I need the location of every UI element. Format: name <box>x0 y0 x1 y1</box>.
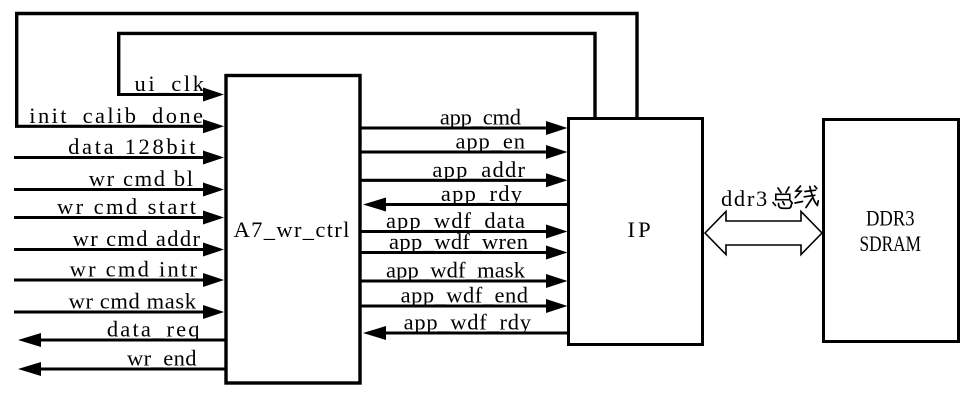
wire data_req (output, leftward) <box>39 338 226 341</box>
arrowhead wr cmd addr into A7 <box>203 243 224 257</box>
arrowhead wr cmd mask into A7 <box>203 305 224 319</box>
svg-text:app_wdf_wren: app_wdf_wren <box>389 229 528 254</box>
svg-text:app_addr: app_addr <box>432 157 525 182</box>
wire wr_end (output, leftward) <box>39 367 226 370</box>
wire wr cmd addr <box>14 248 207 251</box>
wire wr cmd start <box>14 216 207 219</box>
svg-text:wr_end: wr_end <box>127 346 197 371</box>
wire app_addr <box>360 179 549 182</box>
wire wr cmd bl <box>14 188 207 191</box>
svg-text:wr cmd bl: wr cmd bl <box>89 166 193 191</box>
wire wr cmd intr <box>14 278 207 281</box>
arrowhead app_cmd into IP <box>546 121 568 135</box>
arrowhead wr cmd bl into A7 <box>203 183 224 197</box>
arrowhead data 128bit into A7 <box>203 151 224 165</box>
svg-text:wr cmd addr: wr cmd addr <box>73 226 201 251</box>
wire init_calib_done <box>15 125 207 128</box>
block U1 A7_wr_ctrl <box>226 76 360 384</box>
svg-text:app_rdy: app_rdy <box>441 181 523 206</box>
wire app_rdy (from IP, leftward) <box>384 203 569 206</box>
arrowhead app_rdy into A7 <box>363 198 386 212</box>
block U2 IP <box>569 119 703 345</box>
svg-text:A7_wr_ctrl: A7_wr_ctrl <box>234 217 350 242</box>
arrowhead data_req pointing left <box>18 333 41 347</box>
svg-text:wr cmd intr: wr cmd intr <box>70 257 198 282</box>
wire data 128bit <box>14 156 207 159</box>
wire app_wdf_mask <box>360 279 549 282</box>
arrowhead init_calib_done into A7 <box>203 119 224 133</box>
svg-text:data 128bit: data 128bit <box>68 134 196 159</box>
wire wr cmd mask <box>14 310 207 313</box>
arrowhead app_wdf_data into IP <box>546 225 568 239</box>
arrowhead app_wdf_end into IP <box>546 299 568 313</box>
label glyph 线 (of ddr3线) <box>795 186 818 208</box>
arrowhead app_en into IP <box>546 145 568 159</box>
svg-text:app_wdf_mask: app_wdf_mask <box>386 258 526 283</box>
svg-text:app_wdf_rdy: app_wdf_rdy <box>404 310 532 335</box>
wire app_wdf_wren <box>360 251 549 254</box>
svg-text:ddr3: ddr3 <box>721 186 767 211</box>
wire ui_clk <box>117 93 207 96</box>
arrowhead wr cmd intr into A7 <box>203 273 224 287</box>
block U3 DDR3 SDRAM <box>824 120 959 342</box>
arrowhead app_wdf_rdy into A7 <box>363 326 386 340</box>
arrowhead wr cmd start into A7 <box>203 211 224 225</box>
svg-text:data_req: data_req <box>107 317 200 342</box>
arrowhead wr_end pointing left <box>18 362 41 376</box>
wire ui_clk feedback loop (IP top to ui_clk input) <box>119 33 595 118</box>
wire app_en <box>360 150 549 153</box>
arrowhead ui_clk into A7 <box>203 88 224 102</box>
svg-text:DDR3: DDR3 <box>866 206 915 231</box>
label glyph 总 (of ddr3总线) <box>773 187 792 208</box>
wire app_cmd <box>360 126 549 129</box>
arrowhead app_wdf_mask into IP <box>546 274 568 288</box>
wire app_wdf_rdy (from IP, leftward) <box>384 331 569 334</box>
svg-text:wr cmd start: wr cmd start <box>57 194 197 219</box>
arrowhead app_addr into IP <box>546 173 568 187</box>
svg-text:wr cmd mask: wr cmd mask <box>69 289 197 314</box>
svg-text:IP: IP <box>628 217 651 242</box>
bus ddr3 double-headed hollow arrow between IP and DDR3 SDRAM <box>705 212 822 255</box>
svg-text:app_cmd: app_cmd <box>440 105 521 130</box>
svg-text:ui_clk: ui_clk <box>135 71 205 96</box>
svg-text:init_calib_done: init_calib_done <box>29 103 203 128</box>
svg-text:app_wdf_end: app_wdf_end <box>401 283 528 308</box>
arrowhead app_wdf_wren into IP <box>546 246 568 260</box>
wire app_wdf_data <box>360 230 549 233</box>
wire app_wdf_end <box>360 304 549 307</box>
svg-text:app_en: app_en <box>456 129 526 154</box>
wire init_calib_done feedback loop (IP top to left edge) <box>17 14 637 127</box>
svg-text:SDRAM: SDRAM <box>860 231 922 256</box>
